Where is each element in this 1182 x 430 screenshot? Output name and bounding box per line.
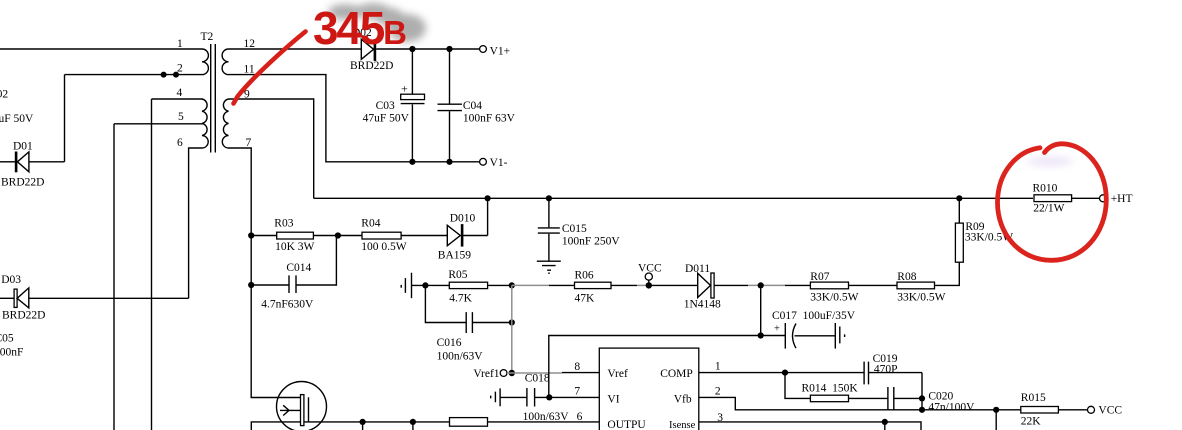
svg-text:47uF 50V: 47uF 50V xyxy=(363,113,410,125)
svg-text:1N4148: 1N4148 xyxy=(684,299,721,311)
lavender smudge xyxy=(1027,157,1073,166)
resistor R015 xyxy=(1021,392,1088,428)
svg-text:100nF 250V: 100nF 250V xyxy=(562,235,621,247)
svg-text:BRD22D: BRD22D xyxy=(2,309,45,321)
capacitor C03 xyxy=(363,49,425,162)
diode D01 xyxy=(0,141,65,189)
svg-text:T2: T2 xyxy=(201,31,214,43)
svg-text:47n/100V: 47n/100V xyxy=(928,402,975,414)
svg-text:R07: R07 xyxy=(810,271,829,283)
capacitor C018 xyxy=(500,373,569,424)
wire pin1 COMP row xyxy=(699,373,922,410)
wire to R06 xyxy=(549,284,637,286)
svg-text:4: 4 xyxy=(177,87,183,99)
resistor R05 xyxy=(448,269,487,305)
svg-text:OUTPU: OUTPU xyxy=(607,419,646,430)
svg-text:47K: 47K xyxy=(575,293,596,305)
svg-text:BRD22D: BRD22D xyxy=(350,60,393,72)
svg-text:7: 7 xyxy=(246,137,252,149)
svg-text:+HT: +HT xyxy=(1111,193,1133,205)
terminal +HT xyxy=(1100,195,1107,202)
svg-text:22K: 22K xyxy=(1021,416,1042,428)
svg-text:C015: C015 xyxy=(562,223,587,235)
wire pin5 row xyxy=(114,124,203,430)
node Vfb R015 junction xyxy=(993,407,999,413)
capacitor C020 xyxy=(888,387,975,414)
node C018 pin7 junction xyxy=(546,394,552,400)
wire stub down a xyxy=(362,422,364,430)
node C017 left junction xyxy=(758,332,764,338)
resistor R09 xyxy=(955,198,1013,262)
wire gray Vref1 to pin8 xyxy=(507,372,562,374)
svg-text:R010: R010 xyxy=(1033,183,1058,195)
svg-text:33K/0.5W: 33K/0.5W xyxy=(897,292,945,304)
node pin2 junction a xyxy=(161,72,167,78)
svg-text:C014: C014 xyxy=(286,262,311,274)
wire stub down b xyxy=(412,422,414,430)
ground C017 xyxy=(835,323,844,349)
svg-text:Vfb: Vfb xyxy=(674,393,692,405)
ground R05 xyxy=(401,273,411,298)
wire R05 right xyxy=(488,284,512,286)
svg-text:D03: D03 xyxy=(1,274,21,286)
node R05 Vref net junction xyxy=(509,282,515,288)
transformer T2 xyxy=(177,31,256,153)
resistor R014 xyxy=(802,383,859,402)
wire pin9 to HT rail xyxy=(229,99,314,198)
svg-text:1: 1 xyxy=(715,361,721,373)
svg-text:R015: R015 xyxy=(1021,392,1046,404)
wire pin4 row xyxy=(152,99,203,430)
ground C018 xyxy=(491,388,500,406)
svg-text:4.7K: 4.7K xyxy=(449,293,472,305)
svg-text:11: 11 xyxy=(244,64,255,76)
capacitor C04 xyxy=(438,49,516,162)
resistor R08 xyxy=(897,271,946,304)
svg-text:2: 2 xyxy=(715,386,721,398)
svg-text:47uF 50V: 47uF 50V xyxy=(0,113,34,125)
capacitor C014 xyxy=(251,236,336,311)
capacitor C015 xyxy=(538,198,621,260)
wire to R07 xyxy=(785,262,959,285)
resistor R04 xyxy=(361,218,407,254)
svg-text:+: + xyxy=(774,324,780,335)
gray smudge blobs xyxy=(328,3,426,42)
capacitor C016 xyxy=(425,285,511,362)
svg-text:2: 2 xyxy=(177,63,183,75)
wire pin7 xyxy=(549,396,599,398)
svg-text:33K/0.5W: 33K/0.5W xyxy=(810,292,858,304)
terminal V1+ xyxy=(480,46,487,53)
svg-text:C04: C04 xyxy=(463,100,482,112)
wire D011 down to C017 xyxy=(760,285,762,335)
node R03 R04 junction xyxy=(335,232,341,238)
svg-text:R05: R05 xyxy=(448,269,467,281)
svg-text:C05: C05 xyxy=(0,333,14,345)
resistor R03 xyxy=(274,218,314,254)
svg-text:4.7nF630V: 4.7nF630V xyxy=(261,299,314,311)
svg-text:100 0.5W: 100 0.5W xyxy=(361,241,407,253)
svg-text:VI: VI xyxy=(607,393,619,405)
svg-text:100nF 63V: 100nF 63V xyxy=(463,113,516,125)
svg-text:D011: D011 xyxy=(685,263,710,275)
node output rail junction b xyxy=(410,419,416,425)
svg-text:BRD22D: BRD22D xyxy=(1,177,44,189)
wire pin6 down xyxy=(189,148,202,298)
resistor R07 xyxy=(810,271,858,304)
wire gray Vref vertical xyxy=(511,285,513,373)
op-amp U1 IC box xyxy=(599,348,699,430)
node Vfb rail junction xyxy=(919,407,925,413)
svg-text:V1-: V1- xyxy=(490,157,508,169)
svg-text:100nF: 100nF xyxy=(0,347,23,359)
node output rail junction a xyxy=(360,419,366,425)
svg-text:Vref1: Vref1 xyxy=(473,368,499,380)
node rail D010 junction xyxy=(485,195,491,201)
svg-text:R08: R08 xyxy=(897,271,916,283)
svg-text:R04: R04 xyxy=(361,218,380,230)
wire pin1 row xyxy=(0,48,202,50)
node V1- C04 junction xyxy=(446,159,452,165)
svg-text:22/1W: 22/1W xyxy=(1033,203,1064,215)
svg-text:VCC: VCC xyxy=(638,263,662,275)
wire R014 branch xyxy=(785,373,922,399)
node rail R09 junction xyxy=(956,195,962,201)
resistor gate series xyxy=(450,418,488,427)
wire Isense stub down xyxy=(884,422,886,430)
diode D010 xyxy=(438,213,476,262)
svg-text:5: 5 xyxy=(178,111,184,123)
wire pin7 net up and over to C017 xyxy=(549,336,786,398)
annotation red circle xyxy=(997,144,1106,261)
node V1+ C04 junction xyxy=(446,46,452,52)
wire pin7 down to gate xyxy=(229,148,301,398)
svg-text:R06: R06 xyxy=(575,270,594,282)
svg-text:6: 6 xyxy=(177,137,183,149)
wire pin11 to V1- rail xyxy=(229,75,480,162)
node V1- C03 junction xyxy=(409,159,415,165)
node Isense junction xyxy=(882,419,888,425)
node C020 out junction xyxy=(919,395,925,401)
svg-text:C03: C03 xyxy=(376,100,395,112)
wire gray after D011 xyxy=(748,284,785,286)
capacitor C017 xyxy=(772,310,856,349)
transistor Q1 mosfet xyxy=(277,382,327,430)
node rail C015 junction xyxy=(546,195,552,201)
svg-text:R014 150K: R014 150K xyxy=(802,383,859,395)
capacitor C019 xyxy=(864,353,898,385)
wire pin2 row xyxy=(65,74,203,76)
terminal VCC top xyxy=(638,263,662,286)
svg-text:12: 12 xyxy=(244,38,256,50)
svg-text:+: + xyxy=(401,82,408,96)
svg-text:C02: C02 xyxy=(0,89,8,101)
svg-text:BA159: BA159 xyxy=(438,250,471,262)
terminal VCC right xyxy=(1088,406,1095,413)
wire pin2 Vfb row xyxy=(699,397,1021,409)
svg-text:D01: D01 xyxy=(13,141,33,153)
node C014 left junction xyxy=(248,282,254,288)
wire R03 R04 D010 row xyxy=(251,198,487,235)
svg-text:1: 1 xyxy=(177,38,183,50)
svg-text:R03: R03 xyxy=(274,218,293,230)
wire pin12 to D02 xyxy=(229,48,362,50)
svg-text:10K 3W: 10K 3W xyxy=(275,241,314,253)
svg-text:Vref: Vref xyxy=(607,368,628,380)
svg-text:C018: C018 xyxy=(525,373,550,385)
wire ground to R05 xyxy=(412,284,450,286)
diode D011 xyxy=(684,263,748,311)
svg-text:Isense: Isense xyxy=(669,420,696,430)
svg-text:COMP: COMP xyxy=(660,368,693,380)
wire gray R05 to R06 xyxy=(512,284,549,286)
diode D02 xyxy=(350,27,480,72)
svg-text:C017 100uF/35V: C017 100uF/35V xyxy=(772,310,856,322)
annotation red arrow line xyxy=(234,32,306,104)
svg-text:D010: D010 xyxy=(450,213,476,225)
resistor R06 xyxy=(575,270,612,305)
svg-text:V1+: V1+ xyxy=(490,46,511,58)
svg-text:8: 8 xyxy=(574,361,580,373)
wire pin3 Isense row xyxy=(699,422,921,430)
node C017 branch junction xyxy=(758,282,764,288)
node COMP R014 junction xyxy=(782,370,788,376)
diode D03 xyxy=(0,274,189,321)
node pin2 junction b xyxy=(173,72,179,78)
wire gray before VCC node xyxy=(637,284,646,286)
svg-text:7: 7 xyxy=(574,386,580,398)
terminal Vref1 xyxy=(473,368,507,380)
svg-text:100n/63V: 100n/63V xyxy=(437,351,484,363)
node R05 left junction xyxy=(422,282,428,288)
svg-text:C016: C016 xyxy=(437,337,462,349)
resistor R010 xyxy=(1033,183,1100,215)
wire HT rail xyxy=(314,197,1033,199)
svg-text:470P: 470P xyxy=(874,363,898,375)
ground C015 xyxy=(537,261,561,273)
terminal V1- xyxy=(480,158,487,165)
wire output rail xyxy=(251,422,599,430)
node VCC junction xyxy=(646,282,652,288)
node C016 right junction xyxy=(509,319,515,325)
svg-text:VCC: VCC xyxy=(1098,405,1122,417)
wire pin8 xyxy=(562,372,599,374)
wire down from R015 node xyxy=(995,410,997,430)
node Vref1 junction xyxy=(509,370,515,376)
node R03 left junction xyxy=(248,232,254,238)
node V1+ C03 junction xyxy=(409,46,415,52)
wire VCC to D011 xyxy=(646,284,698,286)
wire D01 to pin2 vertical xyxy=(64,75,66,162)
